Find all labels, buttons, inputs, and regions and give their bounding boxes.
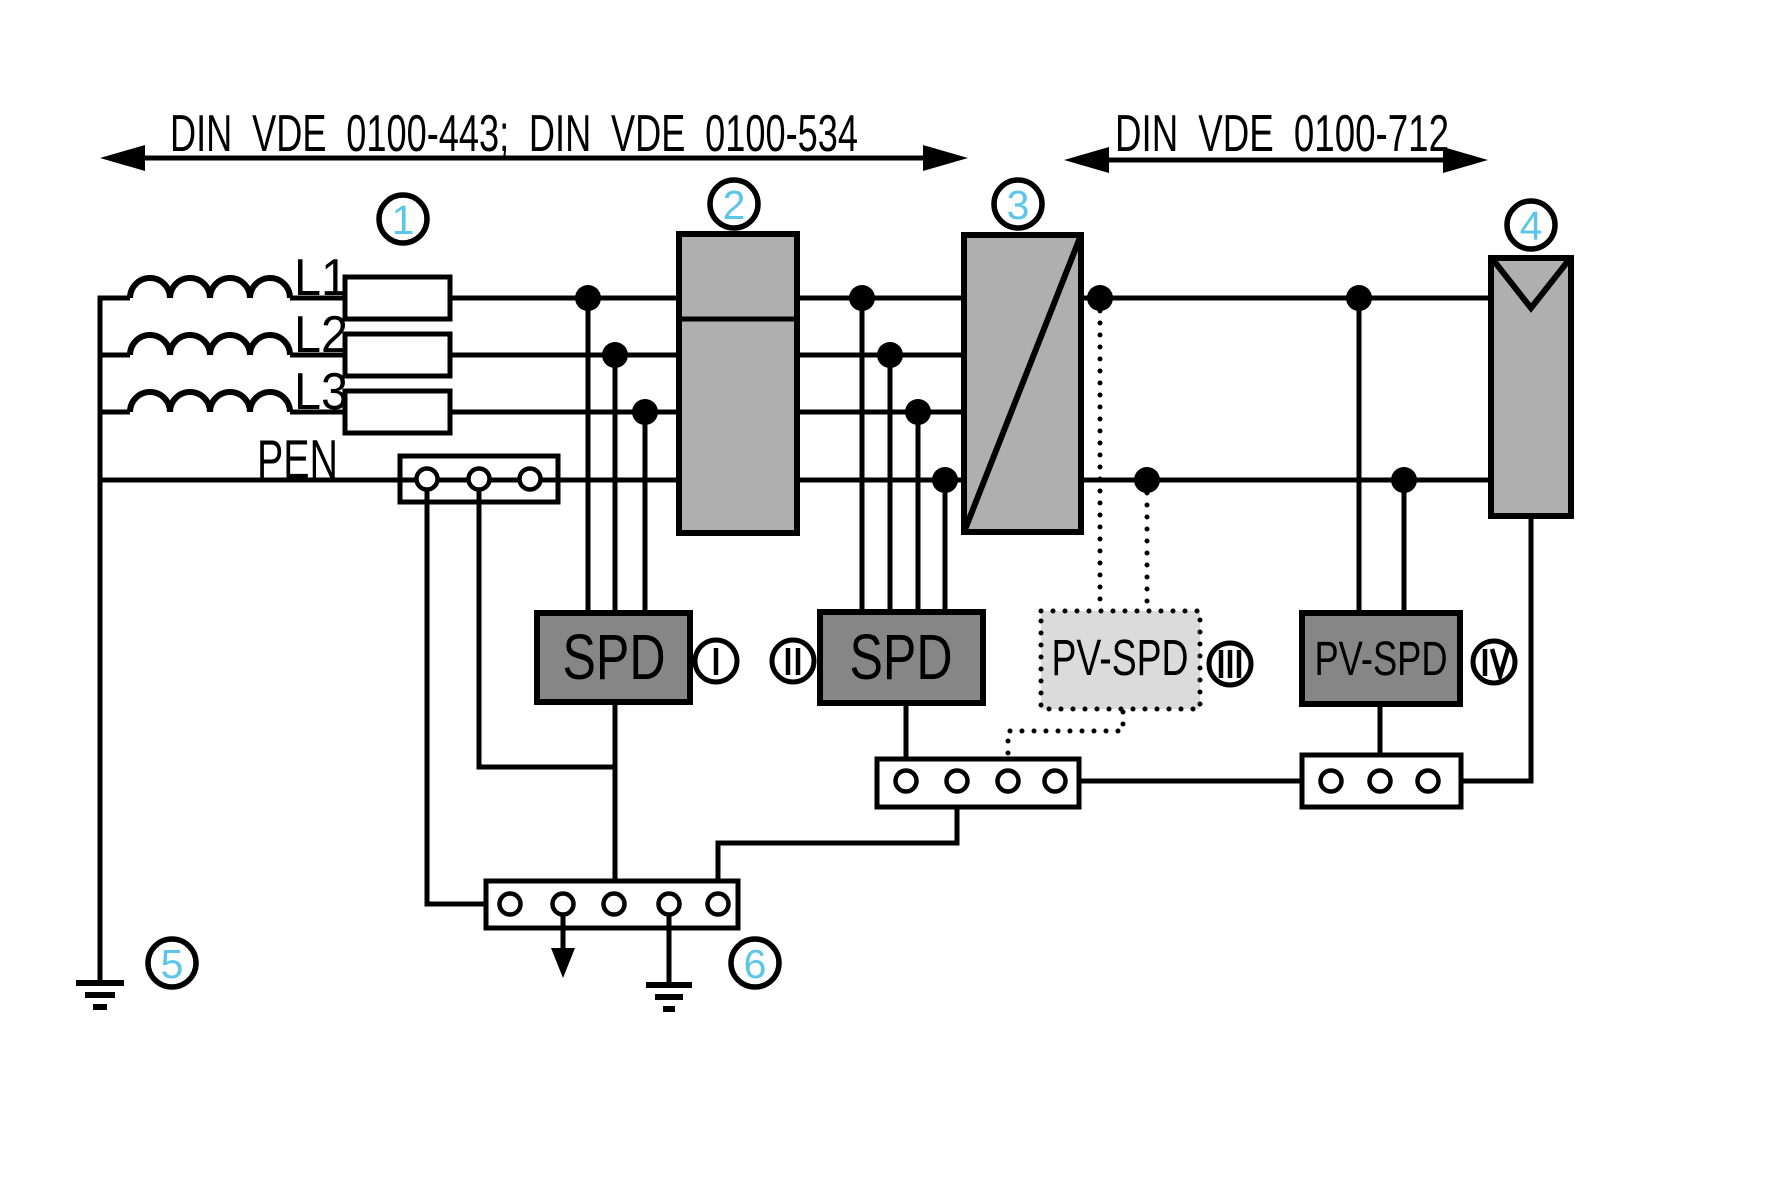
terminal block right bar (3 terminals) (1302, 755, 1461, 807)
wire DC- drop to PV-SPD4 (1402, 480, 1407, 613)
inductor coil L2 (100, 335, 345, 355)
junction L3-SPD1 (632, 399, 658, 425)
wire L2 device 2 to meter 3 (797, 353, 964, 358)
wire left earth bus (98, 296, 103, 982)
label 1 (379, 195, 427, 243)
wire PEN to device 2 (100, 478, 679, 483)
svg-text:L1: L1 (294, 249, 348, 307)
wire DC+ meter 3 to PV generator 4 (1081, 296, 1491, 301)
wire L1 device 2 to meter 3 (797, 296, 964, 301)
wire dotted PV-SPD3 earth (1008, 712, 1123, 766)
junction L1-SPD2 (849, 285, 875, 311)
wire L1 fuse to device 2 (450, 296, 679, 301)
wire L3 drop to SPD2 (916, 412, 921, 612)
junction L2-SPD2 (877, 342, 903, 368)
PV-SPD U3 (planned, dotted) (1041, 611, 1200, 709)
wire dotted DC- to PV-SPD3 (1145, 493, 1150, 608)
label I (695, 640, 737, 682)
fuse F3 (L3) (345, 391, 450, 433)
inductor coil L1 (100, 278, 345, 298)
wire dotted DC+ to PV-SPD3 (1098, 311, 1103, 608)
label 2 (710, 180, 758, 228)
label II (772, 640, 814, 682)
fuse F2 (L2) (345, 334, 450, 376)
PV-SPD U4 (1302, 613, 1460, 704)
label 5 (148, 939, 196, 987)
device 2 (overcurrent protection) (679, 234, 797, 533)
terminal block main earthing bar (5 terminals) (486, 881, 738, 928)
fuse F1 (L1) (345, 277, 450, 319)
svg-text:L3: L3 (294, 363, 348, 421)
wire L2 drop to SPD2 (888, 355, 893, 612)
label 3 (994, 180, 1042, 228)
wire L1 drop to SPD1 (586, 298, 591, 613)
junction L1-SPD1 (575, 285, 601, 311)
junction DC+ PV-SPD3 (1087, 285, 1113, 311)
svg-text:5: 5 (161, 941, 184, 987)
wire L1 drop to SPD2 (860, 298, 865, 612)
svg-text:4: 4 (1520, 203, 1543, 249)
wire PEN drop to SPD2 (943, 480, 948, 612)
wire DC- meter 3 to PV generator 4 (1081, 478, 1491, 483)
svg-text:SPD: SPD (563, 621, 666, 693)
wire L3 fuse to device 2 (450, 410, 679, 415)
svg-text:DIN VDE 0100-443; DIN VDE 0100: DIN VDE 0100-443; DIN VDE 0100-534 (170, 105, 858, 163)
wire L2 drop to SPD1 (613, 355, 618, 613)
label 4 (1507, 201, 1555, 249)
wire terminal bar to right terminal bar (1066, 779, 1302, 784)
junction L3-SPD2 (905, 399, 931, 425)
svg-text:L2: L2 (294, 306, 348, 364)
SPD U2 (type II) (820, 612, 983, 703)
terminal block PEN strip (400, 456, 558, 502)
label 6 (731, 939, 779, 987)
label span DIN VDE 0100-712 (1064, 105, 1488, 173)
junction DC+ PV-SPD4 (1346, 285, 1372, 311)
svg-text:PV-SPD: PV-SPD (1315, 633, 1448, 686)
wire PEN terminal 2 to SPD1 earth line (479, 489, 615, 767)
wire SPD2 to terminal bar (904, 703, 909, 771)
wire L3 drop to SPD1 (643, 412, 648, 613)
ground 5 earth electrode symbol (76, 983, 124, 1007)
wire terminal bar to main earth bar (718, 792, 957, 893)
wire DC+ drop to PV-SPD4 (1357, 298, 1362, 613)
junction PEN-SPD2 (932, 467, 958, 493)
SPD U1 (type I) (537, 613, 690, 702)
wire L2 fuse to device 2 (450, 353, 679, 358)
wire PV generator frame to right terminal bar (1461, 516, 1531, 781)
svg-text:1: 1 (392, 197, 415, 243)
wire PEN terminal 1 to main earth bar (427, 489, 499, 904)
label IV (1473, 641, 1515, 683)
label III (1209, 643, 1251, 685)
svg-text:2: 2 (723, 182, 746, 228)
junction DC- PV-SPD4 (1391, 467, 1417, 493)
label span DIN VDE 0100-443; DIN VDE 0100-534 (100, 105, 968, 171)
PV generator 4 (1491, 258, 1571, 516)
svg-text:3: 3 (1007, 182, 1030, 228)
meter 3 (energy meter with diagonal) (964, 235, 1081, 532)
ground 6 earth electrode symbol (646, 915, 692, 1009)
wire L3 device 2 to meter 3 (797, 410, 964, 415)
wire PEN device 2 to meter 3 (797, 478, 964, 483)
svg-text:SPD: SPD (850, 621, 953, 693)
wire PV-SPD4 to right terminal bar (1378, 704, 1383, 770)
svg-text:6: 6 (744, 941, 767, 987)
junction DC- PV-SPD3 (1134, 467, 1160, 493)
wire earth bar arrow stub (551, 915, 575, 978)
terminal block equipotential bar (4 terminals) (877, 759, 1079, 807)
svg-text:PV-SPD: PV-SPD (1052, 629, 1189, 686)
junction L2-SPD1 (602, 342, 628, 368)
svg-text:DIN VDE 0100-712: DIN VDE 0100-712 (1115, 105, 1449, 163)
inductor coil L3 (100, 392, 345, 412)
wire SPD1 to main earth bar (613, 702, 618, 893)
